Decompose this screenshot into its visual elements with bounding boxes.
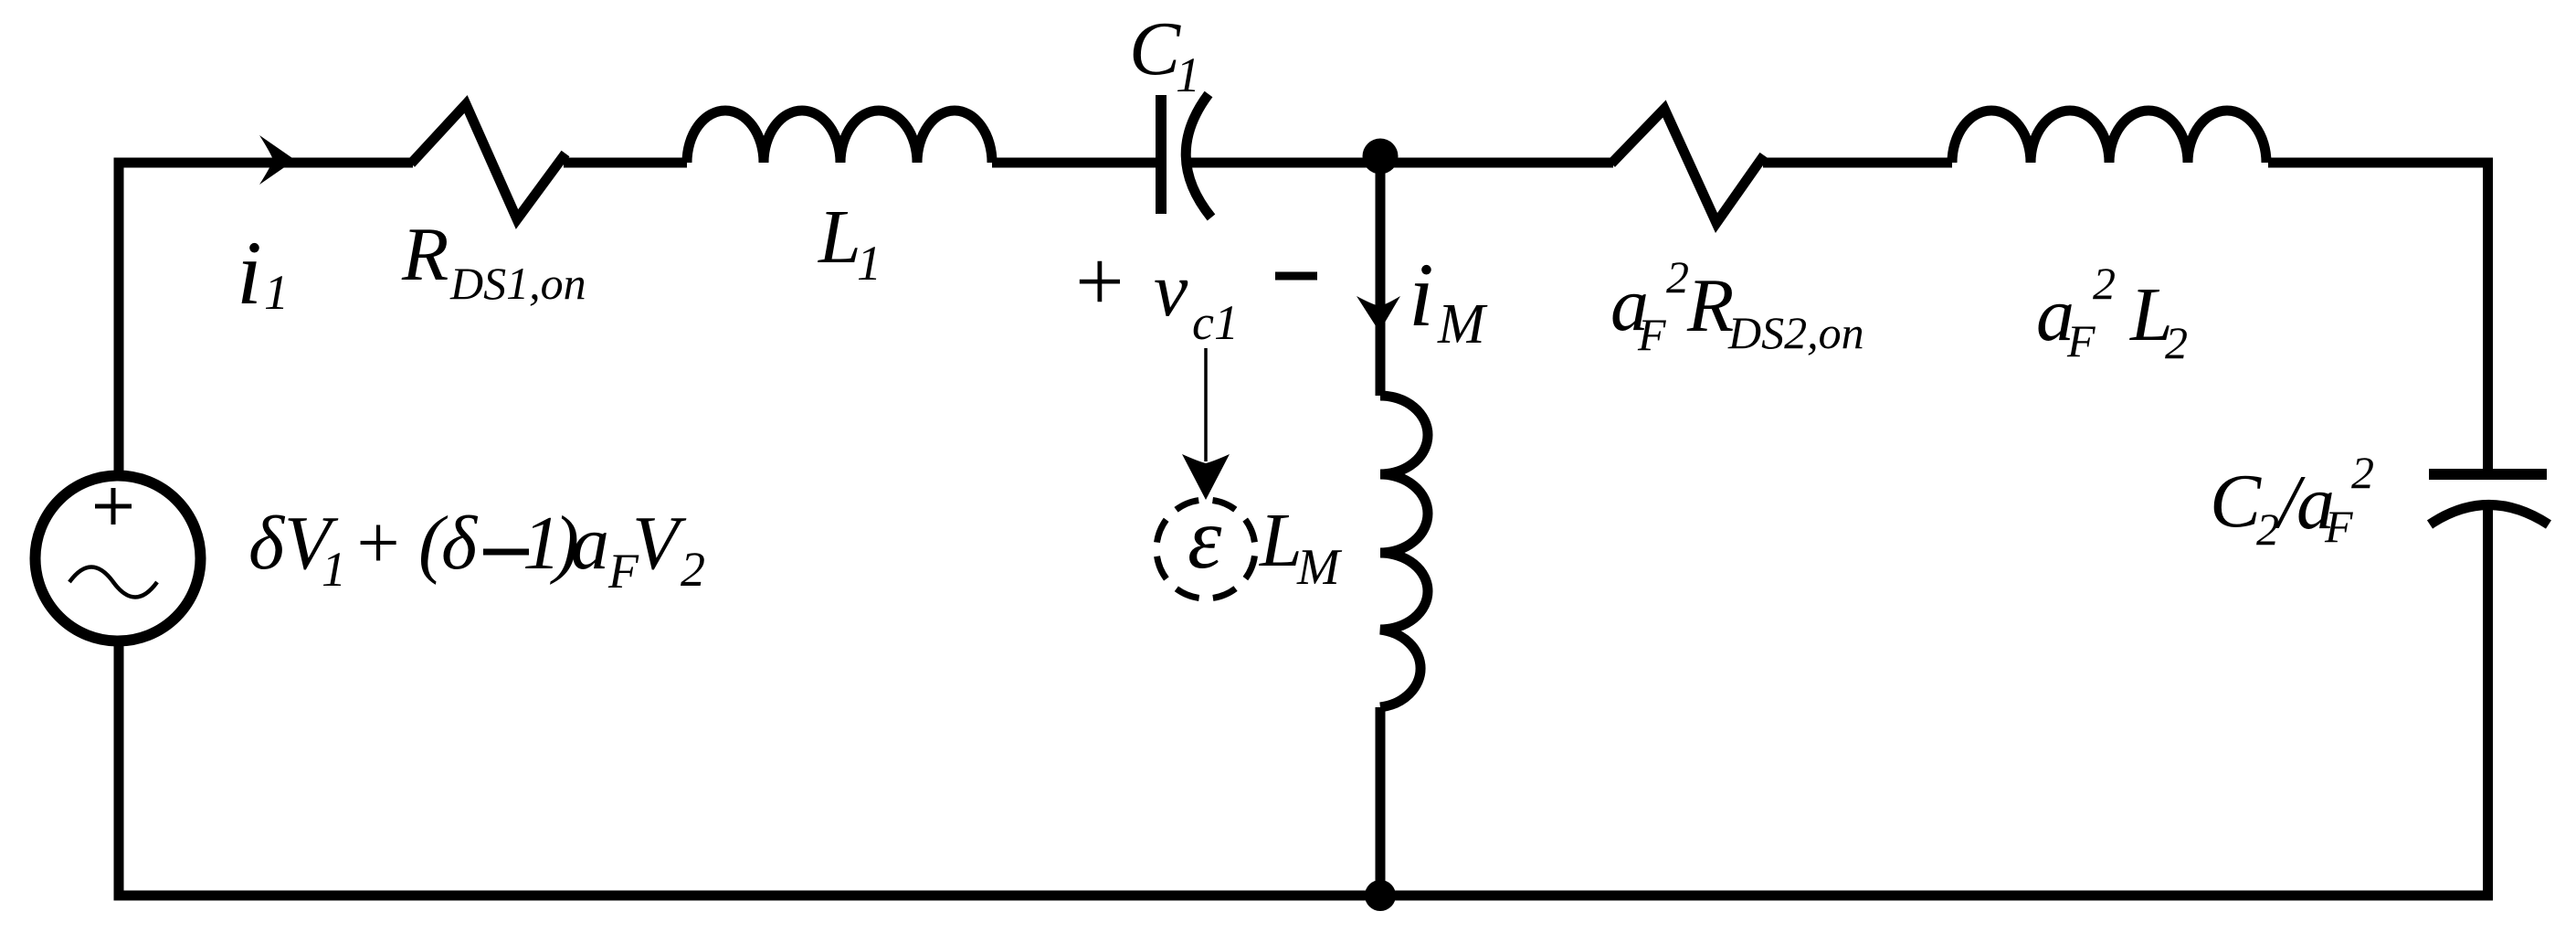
svg-text:ε: ε	[1188, 490, 1222, 587]
AC source sine wave	[69, 567, 157, 598]
svg-text:2: 2	[2351, 447, 2374, 498]
svg-text:v: v	[1154, 248, 1188, 333]
svg-text:M: M	[1296, 539, 1343, 596]
dashed circle epsilon	[1156, 500, 1255, 599]
svg-text:DS2,on: DS2,on	[1727, 307, 1864, 358]
svg-text:F: F	[2066, 315, 2096, 366]
arrow iM on branch	[1357, 296, 1400, 332]
AC source plus sign	[95, 488, 132, 524]
svg-text:V: V	[632, 501, 687, 586]
svg-text:i: i	[1409, 244, 1434, 345]
wire top-right corner down to C2 top plate	[2268, 163, 2488, 470]
wire bottom-right run and right vertical up to C2 bottom plate	[1380, 504, 2488, 895]
svg-text:F: F	[2324, 501, 2353, 552]
svg-text:L: L	[1259, 498, 1303, 583]
svg-text:F: F	[1637, 309, 1666, 360]
capacitor C1 left plate	[1156, 95, 1167, 214]
svg-text:1: 1	[322, 542, 346, 597]
svg-text:δ: δ	[441, 501, 479, 586]
inductor aF^2 L2	[1952, 111, 2266, 163]
resistor aF^2 R_DS2,on	[1611, 109, 1764, 223]
svg-text:2: 2	[681, 542, 705, 597]
svg-text:+: +	[352, 501, 404, 586]
svg-text:L: L	[818, 195, 861, 280]
svg-text:C: C	[2210, 459, 2262, 544]
svg-text:M: M	[1437, 293, 1488, 355]
capacitor C2/aF^2 bottom curved plate	[2430, 505, 2549, 525]
wire between R_DS1,on and L1	[564, 158, 687, 168]
wire vertical branch LM upper	[1376, 157, 1386, 396]
svg-text:R: R	[1686, 263, 1734, 348]
wire between R_DS2 and L2	[1763, 158, 1952, 168]
node A (top junction dot)	[1363, 139, 1399, 175]
svg-text:c1: c1	[1192, 295, 1239, 350]
wire left vertical below source and bottom-left run	[119, 646, 1370, 895]
inductor LM vertical	[1380, 396, 1428, 707]
svg-text:i: i	[237, 222, 262, 323]
svg-text:R: R	[401, 212, 449, 297]
inductor L1	[687, 111, 992, 163]
wire from node A to R_DS2	[1380, 158, 1613, 168]
wire between C1 and node A	[1190, 158, 1380, 168]
svg-text:2: 2	[2165, 317, 2188, 368]
svg-text:a: a	[571, 501, 609, 586]
svg-text:1: 1	[1176, 48, 1200, 102]
wire vertical branch LM lower	[1376, 707, 1386, 895]
svg-text:DS1,on: DS1,on	[449, 258, 586, 309]
label minus of vc1	[1275, 272, 1317, 281]
capacitor C1 right curved plate	[1186, 94, 1211, 217]
svg-text:1: 1	[857, 236, 882, 291]
arrow i1 on top wire	[259, 135, 295, 185]
svg-text:2: 2	[1666, 251, 1689, 302]
arrow vc1 head	[1182, 454, 1230, 500]
wire between L1 and C1	[992, 158, 1156, 168]
svg-text:2: 2	[2093, 258, 2116, 309]
svg-text:1: 1	[264, 265, 289, 320]
resistor R_DS1,on	[411, 104, 565, 219]
svg-text:2: 2	[2256, 503, 2279, 555]
arrow vc1 thin line	[1204, 348, 1208, 461]
AC source V circle	[36, 476, 201, 641]
capacitor C2/aF^2 top plate	[2429, 469, 2547, 480]
svg-text:C: C	[1129, 6, 1181, 91]
node B (bottom junction dot)	[1365, 880, 1396, 911]
wire top-left segment with left corner	[119, 163, 413, 471]
svg-text:+: +	[1070, 233, 1128, 330]
